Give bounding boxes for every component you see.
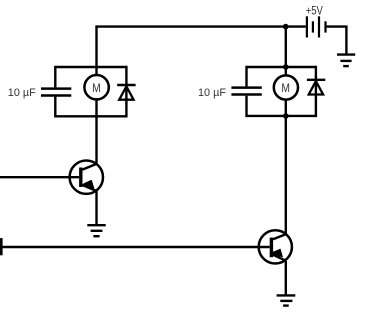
wire battery negative to ground corner <box>327 27 347 54</box>
motor M1 circle <box>84 75 108 99</box>
diode D2 cathode line (block right edge) <box>315 66 317 117</box>
transistor Q1 base bar <box>79 168 82 188</box>
terminal tick bottom left <box>0 238 3 255</box>
ground top right bar 2 <box>340 60 351 62</box>
ground left bar 2 <box>91 230 103 232</box>
battery B1 plate positive tall 2 <box>318 16 320 37</box>
capacitor C2 top plate <box>231 86 261 89</box>
ground top right bar 3 <box>343 65 349 67</box>
svg-text:10 µF: 10 µF <box>8 87 36 99</box>
transistor Q1 emitter diagonal <box>82 185 96 191</box>
node block top junction <box>283 64 289 70</box>
ground bottom right bar 1 <box>277 294 296 296</box>
wire bottom rail to Q2 base <box>1 246 269 248</box>
node block bottom junction <box>283 113 289 119</box>
battery B1 plate positive tall <box>306 16 308 37</box>
node V+ junction <box>283 24 289 30</box>
wire M2 block to Q2 collector <box>285 116 287 234</box>
wire Q1 emitter to ground <box>95 191 97 225</box>
transistor Q2 base bar <box>270 238 273 258</box>
svg-text:M: M <box>92 81 101 95</box>
wire right drop from rail to motor M2 <box>285 27 287 76</box>
capacitor C2 bottom plate <box>231 93 261 96</box>
svg-text:10 µF: 10 µF <box>198 87 226 99</box>
transistor Q2 collector diagonal <box>273 234 286 239</box>
ground top right bar 1 <box>337 53 355 55</box>
transistor Q2 emitter diagonal <box>273 255 286 261</box>
right block rectangle bottom edge <box>247 115 316 117</box>
diode D1 triangle <box>119 86 133 99</box>
capacitor C1 bottom plate <box>41 94 71 97</box>
capacitor C2 bottom lead <box>245 96 247 117</box>
ground left bar 3 <box>93 235 99 237</box>
capacitor C1 top lead <box>54 66 56 88</box>
ground left bar 1 <box>87 224 105 226</box>
diode D2 triangle <box>309 81 323 94</box>
diode D2 cathode bar <box>307 79 325 81</box>
battery B1 plate negative short 2 <box>324 21 326 32</box>
transistor Q2 emitter arrow <box>272 249 283 258</box>
capacitor C2 top lead <box>245 66 247 87</box>
transistor Q1 emitter arrow <box>83 180 95 189</box>
transistor Q1 circle <box>70 161 103 194</box>
motor M2 circle <box>274 75 298 99</box>
left block rectangle bottom edge <box>55 115 126 117</box>
wire Q2 emitter to ground <box>285 261 287 296</box>
wire base of Q1 to left edge <box>0 176 79 178</box>
capacitor C1 bottom lead <box>54 97 56 118</box>
svg-text:M: M <box>281 81 290 95</box>
wire motor M2 bottom to block bottom <box>285 100 287 116</box>
diode D1 cathode line (block right edge) <box>125 66 127 118</box>
battery B1 plate negative short <box>312 21 314 32</box>
wire motor M1 bottom to transistor Q1 collector <box>95 99 97 164</box>
left block rectangle top edge <box>55 66 126 68</box>
svg-text:+5V: +5V <box>306 5 323 17</box>
ground bottom right bar 3 <box>283 304 289 306</box>
wire top rail and left drop to motor M1 <box>97 27 306 76</box>
transistor Q2 circle <box>259 230 292 263</box>
right block rectangle top edge <box>247 66 316 68</box>
ground bottom right bar 2 <box>280 300 292 302</box>
capacitor C1 top plate <box>41 87 71 90</box>
transistor Q1 collector diagonal <box>82 164 96 170</box>
diode D1 cathode bar <box>117 84 135 86</box>
